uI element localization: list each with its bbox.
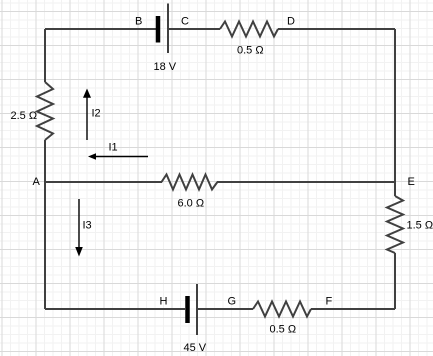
arrow I3 head: [75, 247, 83, 257]
svg-text:I1: I1: [109, 142, 118, 154]
svg-text:0.5 Ω: 0.5 Ω: [270, 324, 297, 336]
wire bottom battery to resistor: [197, 308, 253, 310]
wire right vertical corner to E: [394, 29, 396, 182]
battery V2 45V long plate: [196, 284, 198, 335]
svg-text:6.0 Ω: 6.0 Ω: [178, 198, 205, 210]
arrow I1 head: [88, 153, 96, 160]
wire top-left: A-side vertical above resistor: [44, 29, 46, 182]
svg-text:I2: I2: [92, 108, 101, 120]
battery V2 45V short thick plate: [185, 296, 190, 323]
svg-text:0.5 Ω: 0.5 Ω: [237, 45, 264, 57]
arrow I2 head: [83, 89, 91, 98]
svg-text:F: F: [326, 296, 333, 308]
svg-text:18 V: 18 V: [154, 61, 177, 73]
svg-text:G: G: [228, 296, 237, 308]
battery V1 18V short thick plate: [156, 16, 161, 43]
wire top segment battery to resistor: [168, 28, 220, 30]
wire middle resistor to E: [217, 181, 395, 183]
battery V1 18V long plate: [167, 4, 169, 54]
svg-text:B: B: [135, 16, 142, 28]
svg-text:E: E: [408, 176, 415, 188]
resistor R4 1.5 ohm right: [387, 196, 403, 253]
arrow I1 line: [96, 156, 149, 158]
wire bottom resistor to corner: [311, 308, 395, 310]
resistor R2 2.5 ohm left: [37, 82, 53, 140]
wire left vertical A to bottom corner: [44, 182, 46, 309]
resistor R1 0.5 ohm top: [220, 22, 278, 37]
svg-text:1.5 Ω: 1.5 Ω: [407, 220, 433, 232]
wire right vertical resistor to bottom corner: [394, 253, 396, 309]
resistor R5 0.5 ohm bottom: [253, 302, 311, 317]
svg-text:A: A: [33, 176, 41, 188]
wire bottom left segment: [45, 308, 185, 310]
svg-text:45 V: 45 V: [184, 342, 207, 354]
wire top segment left of battery: [45, 28, 156, 30]
arrow I3 line: [78, 199, 80, 249]
wire right vertical E to resistor: [394, 182, 396, 196]
svg-text:I3: I3: [83, 220, 92, 232]
resistor R3 6.0 ohm middle: [162, 175, 218, 190]
svg-text:2.5 Ω: 2.5 Ω: [11, 110, 38, 122]
wire middle A to resistor: [45, 181, 162, 183]
arrow I2 line: [86, 96, 88, 140]
wire top segment resistor to corner D: [278, 28, 395, 30]
svg-text:C: C: [181, 16, 189, 28]
svg-text:H: H: [160, 296, 168, 308]
svg-text:D: D: [287, 16, 295, 28]
